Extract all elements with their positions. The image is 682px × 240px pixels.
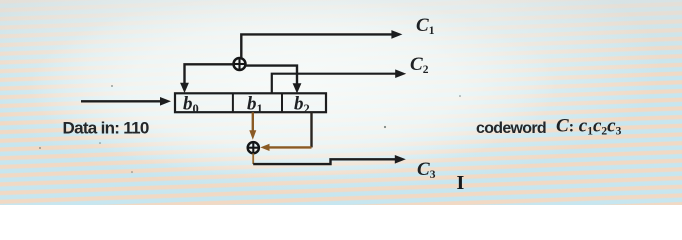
wire: C2 tap from register top	[272, 69, 406, 93]
wire: XOR1 top to C1 output arrow	[241, 30, 402, 58]
svg-text:Data in: 110: Data in: 110	[63, 119, 149, 138]
register cell divider between b0 and b1	[232, 93, 234, 112]
svg-text:codeword: codeword	[476, 120, 546, 137]
wire: b1 bottom to XOR2 (brown arrow)	[249, 112, 256, 140]
svg-text:C2: C2	[410, 54, 429, 76]
wire: data input arrow into register	[81, 97, 171, 106]
register cell divider between b1 and b2	[281, 93, 283, 112]
wire: XOR2 output down (brown stub)	[252, 153, 254, 164]
wire: C3 output path with jog	[253, 155, 406, 164]
svg-text:C1: C1	[416, 15, 435, 37]
XOR gate U1 (top modulo-2 adder)	[234, 58, 246, 70]
svg-text:C: c1c2c3: C: c1c2c3	[556, 116, 622, 138]
wire: XOR1 right branch down into b2	[245, 66, 301, 94]
wire: brown arrow into XOR2 from right	[260, 144, 311, 151]
svg-text:I: I	[457, 172, 465, 194]
register box (3-cell shift register)	[175, 93, 326, 112]
XOR gate U2 (bottom modulo-2 adder)	[248, 142, 259, 153]
specks	[39, 85, 461, 173]
svg-text:C3: C3	[417, 159, 436, 181]
wire: XOR1 left branch down into b0	[180, 64, 234, 93]
wire: b2 bottom vertical to XOR2 corner	[310, 112, 312, 147]
